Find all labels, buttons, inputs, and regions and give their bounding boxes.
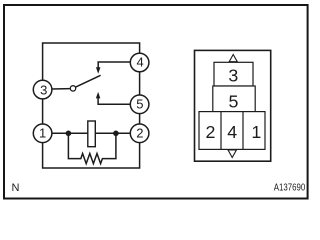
svg-text:4: 4: [227, 122, 237, 142]
svg-text:5: 5: [136, 96, 143, 111]
svg-text:2: 2: [206, 122, 216, 142]
svg-text:3: 3: [40, 82, 47, 97]
svg-text:1: 1: [251, 122, 261, 142]
svg-text:5: 5: [229, 91, 239, 111]
svg-text:N: N: [12, 182, 20, 194]
svg-text:1: 1: [39, 126, 46, 141]
svg-text:3: 3: [228, 65, 238, 85]
svg-text:4: 4: [136, 55, 143, 70]
svg-text:A137690: A137690: [274, 182, 305, 193]
svg-text:2: 2: [136, 126, 143, 141]
